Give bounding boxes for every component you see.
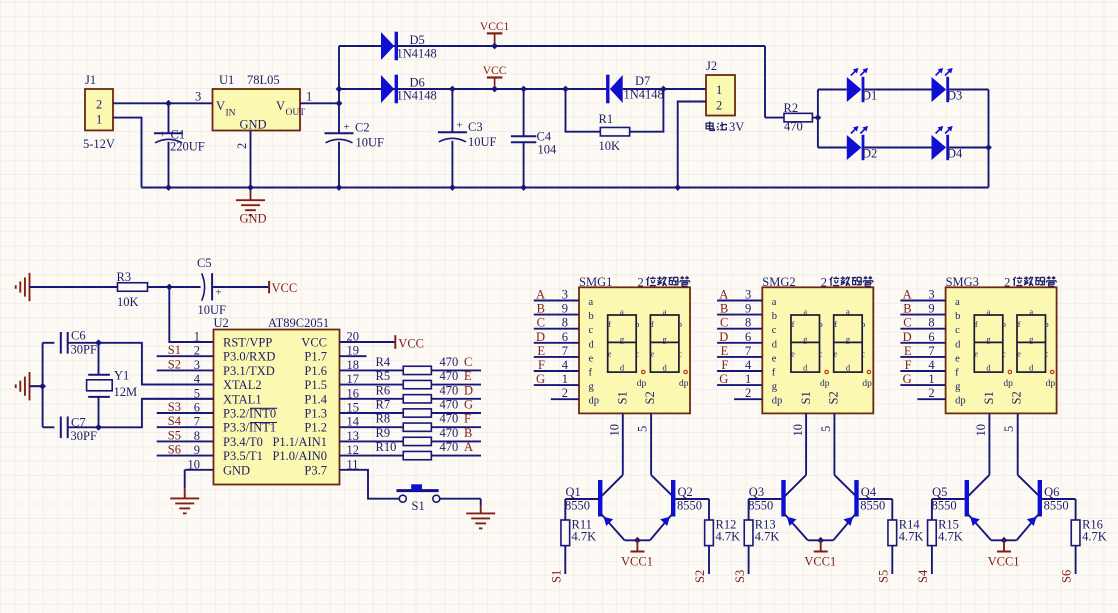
svg-text:VCC: VCC <box>398 337 424 351</box>
svg-text:78L05: 78L05 <box>247 73 280 87</box>
svg-text:e: e <box>955 353 960 364</box>
power port VCC (C5) <box>268 281 270 293</box>
svg-text:G: G <box>464 398 473 412</box>
svg-text:dp: dp <box>637 379 647 389</box>
svg-text:4: 4 <box>928 358 935 372</box>
svg-text:b: b <box>678 319 682 329</box>
svg-text:A: A <box>719 288 728 302</box>
wire switch to ground <box>440 498 481 500</box>
ground GND below U1 <box>236 199 265 201</box>
svg-text:1: 1 <box>194 330 200 344</box>
resistor R13 4.7K <box>748 499 750 520</box>
svg-text:4.7K: 4.7K <box>716 530 741 544</box>
svg-text:c: c <box>678 349 682 359</box>
SMG2 digit 1 glyph <box>791 315 820 372</box>
svg-text:d: d <box>589 339 595 350</box>
svg-text:P1.2: P1.2 <box>304 421 327 435</box>
resistor R7 470 <box>367 412 404 414</box>
junction LED split <box>815 114 822 121</box>
junction emitters SMG3 <box>1001 537 1008 544</box>
wire J1 pin2 to U1 VIN <box>113 102 213 104</box>
svg-text:2: 2 <box>821 276 827 290</box>
svg-text:VCC1: VCC1 <box>480 21 510 33</box>
svg-text:VCC: VCC <box>483 65 507 77</box>
LED D1 <box>847 77 862 102</box>
svg-text:P1.7: P1.7 <box>304 350 327 364</box>
U2 right pin stubs <box>340 341 367 343</box>
svg-text:dp: dp <box>1046 379 1056 389</box>
svg-text:a: a <box>955 297 960 308</box>
resistor R10 470 <box>367 455 404 457</box>
overline INT1 <box>250 422 277 424</box>
svg-text:8: 8 <box>745 316 751 330</box>
svg-text:e: e <box>651 349 655 359</box>
transistor Q5 8550 <box>965 480 969 517</box>
svg-text:e: e <box>589 353 594 364</box>
svg-text:2: 2 <box>96 98 102 112</box>
svg-text:5: 5 <box>636 426 650 432</box>
svg-text:D2: D2 <box>862 147 877 161</box>
svg-text:S2: S2 <box>168 357 181 371</box>
junction R1 right <box>660 86 667 93</box>
svg-text:a: a <box>589 297 594 308</box>
svg-text:F: F <box>538 358 545 372</box>
svg-text:f: f <box>834 319 837 329</box>
junction C4 top <box>520 86 527 93</box>
junction R1 left <box>562 86 569 93</box>
junction J2 pin2 rail <box>674 184 681 191</box>
svg-text:R9: R9 <box>376 426 391 440</box>
junction C1 bottom <box>165 184 172 191</box>
wire R2 to LED split <box>812 117 818 119</box>
wire to D1 <box>818 89 847 91</box>
junction C2 bottom <box>336 184 343 191</box>
svg-text:dp: dp <box>589 396 600 407</box>
resistor R15 4.7K <box>931 499 933 520</box>
svg-text:g: g <box>846 334 851 344</box>
svg-text:10UF: 10UF <box>198 303 227 317</box>
svg-text:D3: D3 <box>947 89 962 103</box>
SMG2 dp circle 1 <box>825 370 828 373</box>
IC U2 AT89C2051 <box>214 330 340 485</box>
overline INT0 <box>250 407 277 409</box>
svg-text:1N4148: 1N4148 <box>397 89 437 103</box>
svg-text:a: a <box>772 297 777 308</box>
svg-text:P3.4/T0: P3.4/T0 <box>223 435 263 449</box>
svg-text:1N4148: 1N4148 <box>624 88 664 102</box>
wire emitter join SMG1 <box>625 539 651 541</box>
resistor R14 4.7K <box>891 499 893 520</box>
svg-text:8550: 8550 <box>677 499 702 513</box>
svg-text:e: e <box>834 349 838 359</box>
svg-text:1: 1 <box>562 372 568 386</box>
svg-text:470: 470 <box>440 398 459 412</box>
svg-text:12M: 12M <box>114 385 138 399</box>
svg-text:C7: C7 <box>71 416 86 430</box>
connector J2 battery <box>706 75 735 116</box>
svg-text:P1.3: P1.3 <box>304 407 327 421</box>
svg-text:P1.1/AIN1: P1.1/AIN1 <box>272 435 327 449</box>
svg-text:c: c <box>589 325 594 336</box>
transistor Q2 8550 <box>671 480 675 517</box>
wire SMG2 S1 pin to Q3 <box>805 413 807 475</box>
svg-text:30PF: 30PF <box>71 343 97 357</box>
svg-text:S3: S3 <box>168 400 181 414</box>
svg-text:S6: S6 <box>168 443 181 457</box>
svg-text:e: e <box>974 349 978 359</box>
svg-text:B: B <box>903 302 911 316</box>
SMG2 dp circle 2 <box>867 370 870 373</box>
diode D7 1N4148 <box>606 75 609 104</box>
resistor R5 470 <box>367 384 404 386</box>
svg-text:R10: R10 <box>376 440 397 454</box>
7-segment display SMG3 <box>946 287 1057 413</box>
svg-text:g: g <box>663 334 668 344</box>
svg-text:f: f <box>608 319 611 329</box>
svg-text:G: G <box>903 372 912 386</box>
svg-text:F: F <box>464 412 471 426</box>
svg-text:XTAL2: XTAL2 <box>223 378 262 392</box>
svg-text:Q3: Q3 <box>749 485 764 499</box>
svg-text:1: 1 <box>96 113 102 127</box>
svg-text:5: 5 <box>819 426 833 432</box>
svg-text:Q6: Q6 <box>1044 485 1059 499</box>
svg-text:1N4148: 1N4148 <box>397 47 437 61</box>
capacitor C5 10UF <box>202 273 205 300</box>
svg-text:IN: IN <box>226 109 236 119</box>
resistor R9 470 <box>367 440 404 442</box>
junction D4 riser <box>985 144 992 151</box>
svg-text:d: d <box>846 362 851 372</box>
SMG2 digit 2 glyph <box>834 315 863 372</box>
svg-text:D7: D7 <box>635 74 650 88</box>
capacitor C2 10UF <box>325 132 354 134</box>
resistor R6 470 <box>367 398 404 400</box>
wire J2 pin2 to rail <box>678 102 706 188</box>
svg-text:S1: S1 <box>799 391 813 404</box>
svg-text:U1: U1 <box>219 73 234 87</box>
svg-text:4.7K: 4.7K <box>755 530 780 544</box>
svg-text:5: 5 <box>1002 426 1016 432</box>
svg-text:c: c <box>1002 349 1006 359</box>
wire D3 cathode to right riser <box>949 89 988 91</box>
svg-text:F: F <box>905 358 912 372</box>
svg-text:g: g <box>986 334 991 344</box>
svg-text:b: b <box>1002 319 1006 329</box>
svg-text:a: a <box>803 307 807 317</box>
LED D4 <box>932 135 947 160</box>
svg-text:D: D <box>536 330 545 344</box>
svg-text:E: E <box>464 369 472 383</box>
SMG2 left pin stubs <box>717 300 762 302</box>
svg-text:S6: S6 <box>1060 570 1074 583</box>
svg-text:c: c <box>635 349 639 359</box>
svg-text:10: 10 <box>974 424 988 437</box>
svg-text:OUT: OUT <box>286 108 306 118</box>
svg-text:d: d <box>955 339 961 350</box>
power port VCC1 (SMG1) <box>636 540 638 551</box>
svg-text:E: E <box>904 344 912 358</box>
svg-text:3: 3 <box>745 288 751 302</box>
svg-text:dp: dp <box>772 396 783 407</box>
svg-text:2: 2 <box>745 386 751 400</box>
svg-text:a: a <box>987 307 991 317</box>
svg-text:104: 104 <box>538 143 558 157</box>
SMG3 dp circle 2 <box>1051 370 1054 373</box>
svg-text:C: C <box>720 316 728 330</box>
wire RST riser to U2 pin1 <box>169 287 213 342</box>
svg-text:2: 2 <box>562 386 568 400</box>
junction VCC stem <box>491 86 498 93</box>
junction 339/VOUT <box>336 100 343 107</box>
svg-text:2: 2 <box>235 143 249 149</box>
svg-text:3: 3 <box>195 90 201 104</box>
wire D2 to D4 <box>864 147 931 149</box>
wire U2 pin10 to ground <box>184 470 186 489</box>
resistor R1 10K <box>566 89 601 132</box>
svg-text:c: c <box>955 325 960 336</box>
wire ground rail top section <box>142 187 989 189</box>
svg-text:V: V <box>216 99 225 113</box>
wire node riser x339 (VOUT/D5/D6/C2) <box>338 46 340 133</box>
wire C5 to VCC <box>212 286 269 288</box>
svg-text:a: a <box>620 307 624 317</box>
svg-text:a: a <box>1029 307 1033 317</box>
svg-text:c: c <box>861 349 865 359</box>
svg-text:R3: R3 <box>117 270 132 284</box>
svg-text:b: b <box>1044 319 1048 329</box>
junction emitters SMG1 <box>634 537 641 544</box>
transistor Q6 8550 <box>1038 480 1042 517</box>
svg-text:Q2: Q2 <box>678 485 693 499</box>
svg-text:S4: S4 <box>916 569 930 583</box>
junction VCC1 stem <box>491 43 498 50</box>
svg-text:d: d <box>663 362 668 372</box>
wire VCC1 net to R2 <box>764 46 766 118</box>
svg-text:P1.4: P1.4 <box>304 392 327 406</box>
wire main row VCC net <box>339 88 607 90</box>
svg-text:f: f <box>772 368 776 379</box>
power port VCC1 (SMG2) <box>820 540 822 551</box>
svg-text:3: 3 <box>562 288 568 302</box>
capacitor C7 30PF <box>43 426 55 428</box>
svg-text:C4: C4 <box>537 130 552 144</box>
svg-text:dp: dp <box>679 379 689 389</box>
svg-text:dp: dp <box>1003 379 1013 389</box>
svg-text:10UF: 10UF <box>468 135 497 149</box>
transistor Q1 8550 <box>598 480 602 517</box>
svg-text:G: G <box>536 372 545 386</box>
label 电池3V <box>706 121 714 130</box>
svg-text:S2: S2 <box>1010 391 1024 404</box>
svg-text:C3: C3 <box>468 120 483 134</box>
svg-text:S5: S5 <box>876 570 890 583</box>
U2 left pin stubs <box>157 355 214 357</box>
ground below pin10 <box>170 497 199 499</box>
resistor R4 470 <box>367 369 404 371</box>
svg-text:Q1: Q1 <box>566 485 581 499</box>
svg-text:6: 6 <box>562 330 568 344</box>
svg-text:SMG3: SMG3 <box>946 275 979 289</box>
wire LED right riser to rail <box>988 90 990 188</box>
wire D4 cathode to right riser <box>949 147 988 149</box>
junction C3 bottom <box>449 184 456 191</box>
svg-text:D4: D4 <box>947 147 963 161</box>
svg-text:S1: S1 <box>982 391 996 404</box>
SMG1 dp circle 2 <box>684 370 687 373</box>
svg-text:d: d <box>772 339 778 350</box>
svg-text:S2: S2 <box>643 391 657 404</box>
resistor R16 4.7K <box>1075 499 1077 520</box>
junction emitters SMG2 <box>817 537 824 544</box>
svg-text:B: B <box>537 302 545 316</box>
SMG3 left pin stubs <box>900 300 945 302</box>
svg-text:4.7K: 4.7K <box>938 530 963 544</box>
svg-text:P3.7: P3.7 <box>304 463 327 477</box>
svg-text:2: 2 <box>638 276 644 290</box>
svg-text:f: f <box>589 368 593 379</box>
junction C1 top <box>165 100 172 107</box>
svg-text:+: + <box>457 120 463 132</box>
svg-text:AT89C2051: AT89C2051 <box>268 316 329 330</box>
svg-text:+: + <box>344 121 350 133</box>
svg-text:7: 7 <box>745 344 751 358</box>
svg-text:10: 10 <box>608 424 622 437</box>
svg-text:R7: R7 <box>376 398 391 412</box>
svg-text:470: 470 <box>440 383 459 397</box>
svg-text:VCC: VCC <box>272 281 298 295</box>
svg-text:470: 470 <box>440 426 459 440</box>
svg-text:10K: 10K <box>117 295 139 309</box>
svg-text:1: 1 <box>928 372 934 386</box>
svg-text:R2: R2 <box>784 101 799 115</box>
svg-text:Q5: Q5 <box>932 485 947 499</box>
svg-text:E: E <box>721 344 729 358</box>
svg-text:2: 2 <box>1004 276 1010 290</box>
svg-text:g: g <box>955 382 961 393</box>
svg-text:A: A <box>536 288 545 302</box>
svg-text:C6: C6 <box>71 329 86 343</box>
power port VCC (U2 pin20) <box>367 341 396 343</box>
wire XTAL2 connection <box>99 343 214 385</box>
svg-text:GND: GND <box>239 118 266 132</box>
wire SMG3 S2 pin to Q6 <box>1017 413 1019 475</box>
svg-text:S4: S4 <box>168 414 182 428</box>
svg-text:P1.0/AIN0: P1.0/AIN0 <box>272 449 327 463</box>
svg-text:R4: R4 <box>376 355 391 369</box>
junction R3/C5/RST <box>166 284 173 291</box>
svg-text:f: f <box>1018 319 1021 329</box>
svg-text:C5: C5 <box>197 256 212 270</box>
SMG1 digit 1 glyph <box>608 315 637 372</box>
svg-text:C: C <box>537 316 545 330</box>
svg-text:a: a <box>663 307 667 317</box>
svg-text:E: E <box>537 344 545 358</box>
svg-text:A: A <box>464 440 473 454</box>
svg-text:A: A <box>903 288 912 302</box>
svg-text:10K: 10K <box>599 139 621 153</box>
svg-text:8550: 8550 <box>748 499 773 513</box>
wire SMG3 S1 pin to Q5 <box>988 413 990 475</box>
svg-text:VCC1: VCC1 <box>804 555 836 569</box>
svg-text:SMG1: SMG1 <box>579 275 612 289</box>
svg-text:470: 470 <box>784 120 803 134</box>
resistor R8 470 <box>367 426 404 428</box>
wire emitter join SMG3 <box>991 539 1017 541</box>
svg-text:e: e <box>1017 349 1021 359</box>
svg-text:D: D <box>719 330 728 344</box>
svg-text:4.7K: 4.7K <box>572 530 597 544</box>
svg-text:S3: S3 <box>733 570 747 583</box>
svg-text:dp: dp <box>862 379 872 389</box>
svg-text:8550: 8550 <box>1044 499 1069 513</box>
svg-text:470: 470 <box>440 412 459 426</box>
SMG1 dp circle 1 <box>642 370 645 373</box>
svg-text:B: B <box>720 302 728 316</box>
wire LED anode riser <box>817 90 819 148</box>
svg-text:F: F <box>721 358 728 372</box>
svg-text:S2: S2 <box>693 570 707 583</box>
capacitor C4 104 <box>523 89 525 136</box>
svg-text:470: 470 <box>440 440 459 454</box>
svg-text:6: 6 <box>928 330 934 344</box>
svg-text:S1: S1 <box>168 343 181 357</box>
svg-text:e: e <box>772 353 777 364</box>
svg-text:Y1: Y1 <box>114 369 129 383</box>
svg-text:e: e <box>608 349 612 359</box>
svg-text:470: 470 <box>440 355 459 369</box>
svg-text:b: b <box>955 311 960 322</box>
svg-text:GND: GND <box>239 212 266 226</box>
svg-text:8550: 8550 <box>932 499 957 513</box>
svg-text:g: g <box>772 382 778 393</box>
wire SMG1 S2 pin to Q2 <box>650 413 652 475</box>
svg-text:R6: R6 <box>376 383 391 397</box>
svg-text:9: 9 <box>928 302 934 316</box>
svg-text:+: + <box>216 287 222 299</box>
junction U1 gnd rail <box>247 184 254 191</box>
svg-text:d: d <box>620 362 625 372</box>
power port VCC top <box>494 78 496 90</box>
svg-text:7: 7 <box>928 344 934 358</box>
svg-text:1: 1 <box>745 372 751 386</box>
svg-text:c: c <box>772 325 777 336</box>
svg-text:V: V <box>276 99 285 113</box>
svg-text:1: 1 <box>716 83 722 97</box>
svg-text:a: a <box>846 307 850 317</box>
svg-text:GND: GND <box>223 463 250 477</box>
svg-text:d: d <box>986 362 991 372</box>
SMG3 dp circle 1 <box>1008 370 1011 373</box>
svg-text:5-12V: 5-12V <box>83 137 115 151</box>
SMG3 digit 1 glyph <box>974 315 1003 372</box>
wire SMG1 S1 pin to Q1 <box>622 413 624 475</box>
svg-text:C: C <box>464 355 472 369</box>
svg-text:VCC: VCC <box>301 336 327 350</box>
resistor R2 470 <box>784 113 812 122</box>
capacitor C3 10UF <box>451 89 453 132</box>
svg-text:R8: R8 <box>376 412 391 426</box>
svg-text:S1: S1 <box>412 499 425 513</box>
diode D5 1N4148 <box>381 32 394 60</box>
svg-text:f: f <box>792 319 795 329</box>
svg-text:b: b <box>861 319 865 329</box>
connector J1 <box>85 89 113 130</box>
wire crystal left riser <box>42 343 44 428</box>
svg-text:J2: J2 <box>706 59 717 73</box>
svg-text:c: c <box>819 349 823 359</box>
svg-text:3: 3 <box>928 288 934 302</box>
